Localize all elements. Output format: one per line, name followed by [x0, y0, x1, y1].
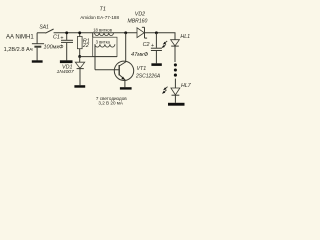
ground (C1)	[60, 60, 73, 63]
svg-text:VT1: VT1	[137, 66, 147, 72]
ground (C2)	[151, 63, 161, 66]
LED HL1 arrows	[165, 41, 168, 43]
resistor R1 22	[79, 33, 81, 37]
wire emitter	[119, 75, 125, 88]
wire to HL7	[174, 79, 176, 88]
wire base	[95, 69, 119, 71]
ground (VD1)	[74, 85, 85, 88]
ground (battery)	[32, 60, 43, 62]
transformer T1 secondary winding 3 turns	[95, 44, 115, 47]
LED HL7 arrows	[165, 87, 168, 89]
capacitor C2	[155, 33, 157, 48]
svg-text:+: +	[151, 43, 154, 49]
node (R1 to rail junction)	[78, 31, 81, 34]
node (C2 junction on rail)	[155, 31, 158, 34]
svg-text:AA NiMH1: AA NiMH1	[6, 34, 34, 40]
svg-text:3,2 В 20 мА: 3,2 В 20 мА	[98, 100, 124, 105]
svg-text:18 витков: 18 витков	[93, 28, 113, 33]
emitter arrow	[121, 77, 125, 80]
svg-text:22: 22	[82, 43, 89, 49]
battery GB1 AA NiMH	[36, 33, 38, 44]
ground (emitter)	[120, 87, 132, 89]
svg-text:47мкФ: 47мкФ	[131, 52, 149, 58]
svg-text:С2: С2	[143, 42, 150, 48]
node (C1 to rail junction)	[65, 31, 68, 34]
svg-text:HL1: HL1	[180, 34, 190, 40]
svg-text:HL7: HL7	[181, 83, 192, 89]
node dots ellipsis between HL1 and HL7	[174, 63, 177, 66]
svg-text:3 витка: 3 витка	[96, 39, 111, 44]
node A (R1/VD1 junction)	[78, 55, 81, 58]
svg-text:VD2: VD2	[135, 11, 145, 17]
svg-text:SA1: SA1	[39, 25, 49, 31]
svg-text:MBR160: MBR160	[128, 18, 148, 24]
svg-text:1N4007: 1N4007	[57, 69, 74, 75]
capacitor C1	[66, 33, 68, 40]
wire secondary left terminal down to base wire	[94, 44, 96, 70]
switch SA1 lever	[45, 29, 53, 33]
transformer T1 primary winding 18 turns	[95, 33, 114, 36]
svg-text:2SC1226A: 2SC1226A	[135, 73, 161, 79]
transistor VT1 2SC1226A	[114, 61, 133, 80]
wire node A to transformer box bottom right	[80, 56, 117, 58]
svg-text:Amidon EA-77-188: Amidon EA-77-188	[80, 15, 119, 20]
ground (HL7)	[168, 103, 185, 106]
diode VD2 MBR160 schottky	[137, 28, 144, 38]
svg-text:1,2В/2.8 Ач: 1,2В/2.8 Ач	[4, 47, 33, 53]
wire top rail from VD2 cathode to HL1 corner	[145, 33, 176, 40]
wire top rail left segment from battery to switch	[37, 32, 46, 34]
wire collector	[119, 33, 126, 66]
LED HL7	[171, 88, 180, 95]
svg-text:С1: С1	[53, 35, 60, 41]
svg-text:Т1: Т1	[100, 7, 106, 13]
wire top rail from switch to VD2 anode	[54, 32, 137, 34]
diode VD1 1N4007	[79, 57, 81, 63]
svg-text:100мкФ: 100мкФ	[44, 44, 65, 50]
transformer T1 screen box	[92, 33, 94, 37]
node (collector junction on rail)	[124, 31, 127, 34]
svg-text:+: +	[60, 36, 63, 42]
LED HL1	[171, 40, 180, 46]
